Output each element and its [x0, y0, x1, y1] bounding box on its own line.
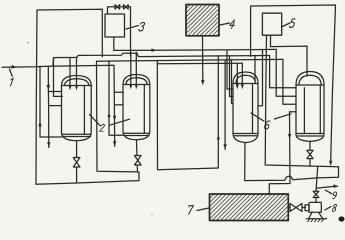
pump riser wire: [316, 167, 318, 203]
valve on box3 loop (right): [124, 5, 129, 9]
column A left side exit wire (up arrow): [40, 66, 62, 137]
column C right top pipes wires: [255, 50, 263, 106]
bus B1 arrow: [152, 49, 158, 52]
label 9: [332, 192, 337, 199]
box 3 bottom pipe wire: [113, 37, 115, 50]
column B left side exit wire (up arrow): [109, 61, 123, 136]
column C top pipes with arrows: [237, 63, 242, 84]
left boundary wire: [36, 10, 139, 184]
label 8: [332, 204, 337, 211]
label 1: [10, 78, 13, 86]
column B springline: [123, 84, 150, 86]
column A inner dome: [65, 79, 89, 86]
column B right side pipe wire: [157, 61, 218, 170]
bus wire B1: [114, 49, 276, 50]
top boundary wire: [37, 9, 102, 57]
wire: distribution branch to column C dome: [158, 62, 243, 64]
column A bottom grid: [62, 134, 91, 136]
column A right side pipe wire: [97, 61, 139, 172]
box 4 downpipe wire with arrow: [202, 36, 204, 81]
column A left vent wire (down arrows): [48, 66, 61, 147]
label 9 leader: [325, 190, 332, 194]
column B top pipes with arrows: [131, 52, 137, 84]
right boundary arrow down: [329, 161, 332, 166]
column B inner dome: [126, 78, 147, 85]
column C left side steps wires: [227, 50, 233, 104]
label 5 leader: [283, 23, 290, 27]
label 2: [100, 124, 105, 131]
scan dust speck: [27, 42, 29, 44]
column B bottom grid: [124, 133, 149, 135]
column A top pipes with arrows: [70, 58, 77, 86]
valve under column B: [135, 156, 142, 166]
label 7: [187, 206, 193, 215]
valve under column A: [73, 158, 80, 168]
pump 8: [305, 205, 309, 211]
column D bottom grid: [297, 134, 323, 137]
apparatus box 3: [105, 14, 125, 37]
column B left vent wire (down arrow): [113, 141, 116, 146]
column B bottom outlet wire: [136, 140, 137, 172]
desorbate box 7 (hatched): [210, 194, 289, 221]
column C inner wall: [252, 84, 254, 134]
label 2 leaders: [90, 115, 130, 126]
label 1 leader: [10, 69, 13, 76]
box 5 pipe to bottom loop wire: [265, 35, 338, 167]
label 3 leader: [126, 26, 139, 30]
label 8 leader: [325, 207, 331, 211]
column C inner dome: [236, 75, 256, 83]
label 6 leaders: [251, 113, 291, 121]
vent wire left of column C (down arrow): [224, 60, 226, 150]
adsorber column B shell: [123, 75, 150, 140]
label 3: [139, 22, 145, 30]
box 3 top loop wire: [108, 7, 131, 56]
product arrow 9 wire: [316, 186, 334, 188]
scan dust speck: [151, 213, 152, 214]
column D inner dome: [299, 75, 321, 85]
bus wire B2: [53, 53, 270, 66]
feed arrow head: [12, 65, 18, 69]
column A inner wall: [83, 86, 85, 135]
arrow: down flow on column B feed drop: [113, 116, 116, 122]
heater box 4 (hatched): [186, 5, 219, 36]
column D inner wall: [319, 85, 321, 134]
adsorber column A shell: [62, 76, 92, 141]
staircase wires into column D: [270, 56, 296, 88]
column A springline: [62, 85, 92, 87]
adsorber column D shell: [296, 72, 324, 142]
label 5: [289, 19, 295, 27]
column C bottom grid: [234, 134, 257, 136]
column D left exit wire to box 7 (down arrow): [269, 112, 296, 194]
column D outlet wire: [309, 141, 311, 166]
valve under column D: [307, 150, 313, 158]
bus wire B3: [97, 59, 283, 61]
valve on box3 loop (left): [115, 5, 120, 9]
ink blob: [339, 216, 345, 221]
condenser box 5: [262, 13, 281, 35]
column C outlet wire to bottom: [245, 143, 339, 181]
label 4 leader: [220, 23, 230, 25]
adsorber column C shell: [233, 72, 258, 143]
label 6: [264, 121, 270, 129]
column D inner tube: [303, 88, 305, 134]
label 7 leader: [197, 208, 209, 211]
label 4: [229, 20, 235, 29]
box 5 pipe to column 4 wire: [271, 35, 308, 76]
valve above pump: [313, 191, 319, 197]
right section boundary wire: [251, 5, 336, 162]
column D springline: [296, 84, 324, 86]
mid riser wire (up arrow): [217, 56, 219, 168]
wire: feed line 1, turns down into column B side: [2, 65, 115, 146]
column B inner wall: [143, 85, 145, 134]
column A bottom outlet wire: [76, 141, 78, 183]
column C springline: [233, 83, 258, 85]
valve between box 7 and pump: [289, 207, 306, 209]
wire: column B side entry stubs: [114, 92, 123, 105]
